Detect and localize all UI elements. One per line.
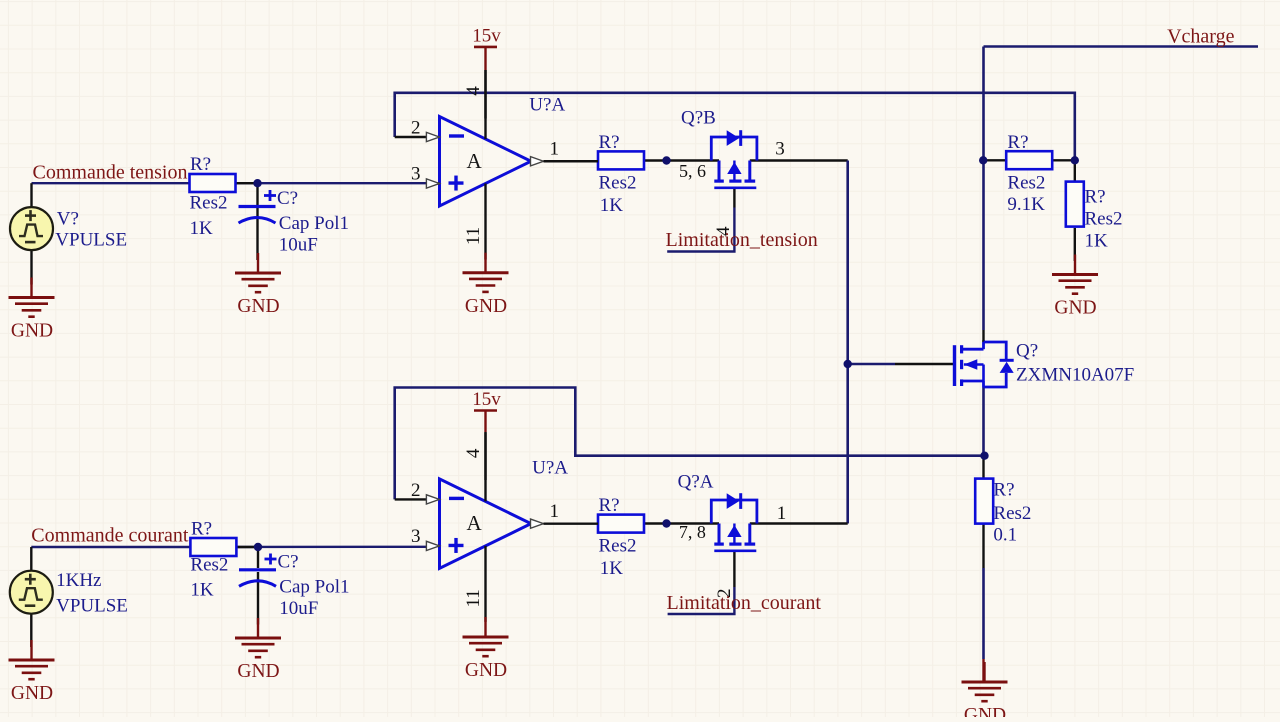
- svg-text:R?: R?: [599, 132, 620, 153]
- svg-text:2: 2: [411, 480, 421, 501]
- svg-text:Res2: Res2: [1007, 173, 1045, 194]
- svg-text:R?: R?: [190, 154, 211, 175]
- svg-text:Q?: Q?: [1016, 341, 1038, 362]
- svg-text:1K: 1K: [190, 218, 214, 239]
- svg-text:Res2: Res2: [993, 503, 1031, 524]
- svg-text:Res2: Res2: [1085, 209, 1123, 230]
- svg-text:2: 2: [411, 118, 421, 139]
- svg-text:VPULSE: VPULSE: [56, 596, 128, 617]
- svg-text:Limitation_tension: Limitation_tension: [666, 229, 818, 251]
- svg-text:4: 4: [463, 86, 484, 96]
- svg-text:GND: GND: [237, 296, 279, 317]
- svg-text:9.1K: 9.1K: [1007, 194, 1045, 215]
- svg-text:Limitation_courant: Limitation_courant: [667, 592, 822, 614]
- svg-text:Res2: Res2: [190, 555, 228, 576]
- svg-text:ZXMN10A07F: ZXMN10A07F: [1016, 365, 1134, 386]
- svg-text:GND: GND: [1054, 298, 1096, 319]
- svg-text:C?: C?: [277, 188, 298, 209]
- svg-text:Q?B: Q?B: [681, 108, 716, 129]
- svg-text:Res2: Res2: [599, 536, 637, 557]
- svg-text:Vcharge: Vcharge: [1167, 26, 1234, 48]
- svg-text:Cap Pol1: Cap Pol1: [279, 577, 349, 598]
- svg-text:11: 11: [463, 589, 484, 607]
- svg-text:A: A: [467, 149, 483, 173]
- svg-text:GND: GND: [11, 683, 53, 704]
- svg-text:10uF: 10uF: [279, 235, 318, 256]
- svg-text:0.1: 0.1: [993, 525, 1017, 546]
- svg-text:GND: GND: [465, 660, 507, 681]
- svg-text:VPULSE: VPULSE: [55, 230, 127, 251]
- svg-text:Cap Pol1: Cap Pol1: [279, 213, 349, 234]
- svg-text:GND: GND: [237, 661, 279, 682]
- svg-text:3: 3: [411, 164, 421, 185]
- svg-text:5, 6: 5, 6: [679, 161, 706, 181]
- svg-text:10uF: 10uF: [279, 598, 318, 619]
- svg-text:U?A: U?A: [532, 458, 568, 479]
- svg-text:7, 8: 7, 8: [679, 522, 706, 542]
- svg-text:15v: 15v: [472, 389, 501, 410]
- svg-text:A: A: [467, 511, 483, 535]
- svg-text:15v: 15v: [472, 25, 501, 46]
- svg-text:Q?A: Q?A: [678, 472, 714, 493]
- svg-text:1: 1: [550, 139, 560, 160]
- svg-text:1K: 1K: [190, 580, 214, 601]
- svg-text:1K: 1K: [1085, 231, 1109, 252]
- svg-text:R?: R?: [993, 480, 1014, 501]
- svg-text:V?: V?: [57, 209, 79, 230]
- svg-text:1K: 1K: [600, 558, 624, 579]
- svg-text:Commande tension: Commande tension: [33, 161, 188, 183]
- svg-text:R?: R?: [599, 495, 620, 516]
- svg-text:3: 3: [411, 526, 421, 547]
- svg-text:1: 1: [550, 501, 560, 522]
- svg-text:3: 3: [775, 139, 785, 160]
- svg-text:R?: R?: [191, 518, 212, 539]
- svg-text:Res2: Res2: [190, 193, 228, 214]
- svg-text:11: 11: [463, 227, 484, 245]
- svg-text:4: 4: [463, 448, 484, 458]
- svg-text:R?: R?: [1007, 132, 1028, 153]
- svg-text:GND: GND: [11, 321, 53, 342]
- svg-text:C?: C?: [278, 552, 299, 573]
- svg-text:U?A: U?A: [529, 95, 565, 116]
- svg-text:1: 1: [777, 503, 787, 524]
- svg-text:GND: GND: [465, 296, 507, 317]
- svg-text:Res2: Res2: [599, 172, 637, 193]
- svg-text:1KHz: 1KHz: [56, 570, 101, 591]
- svg-text:R?: R?: [1085, 187, 1106, 208]
- svg-text:1K: 1K: [600, 195, 624, 216]
- svg-text:Commande courant: Commande courant: [31, 525, 189, 547]
- svg-text:GND: GND: [964, 705, 1006, 717]
